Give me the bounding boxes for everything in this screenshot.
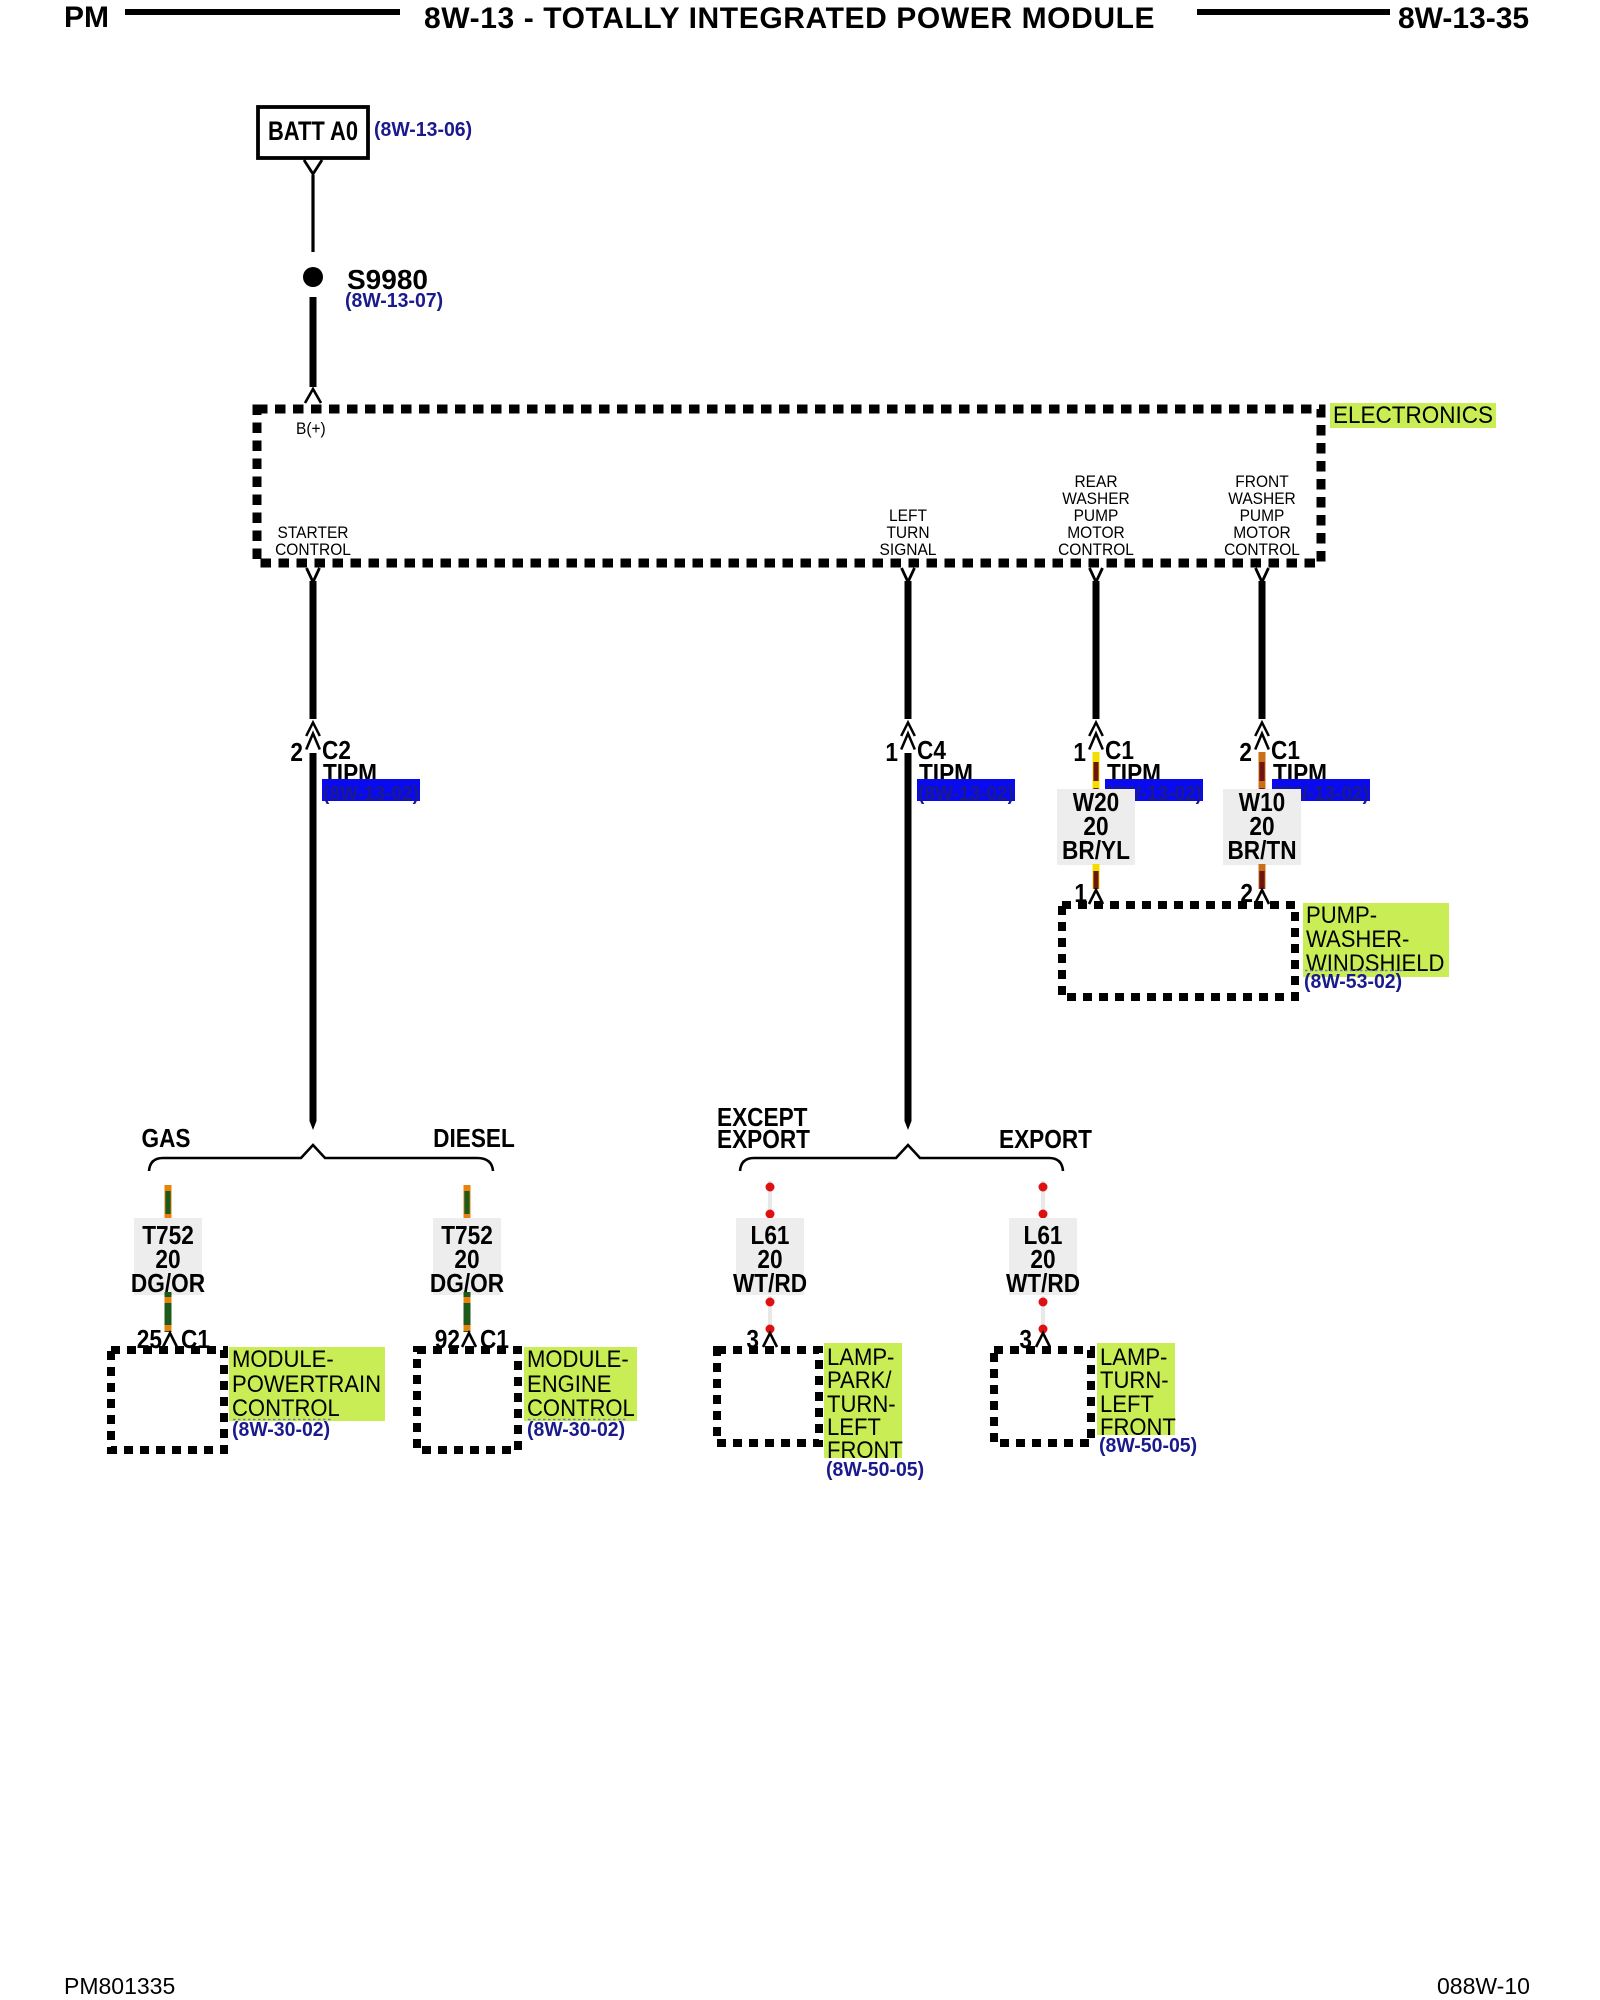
wire label T752 20 DG/OR (gas): [134, 1218, 202, 1295]
reference (8W-13-02) highlighted blue: [322, 779, 420, 801]
wire label L61 20 WT/RD (export): [1009, 1218, 1077, 1295]
wire T752 diesel segment upper (DG/OR): [464, 1185, 471, 1218]
underline artifact: [528, 1419, 626, 1421]
svg-text:PUMP: PUMP: [1240, 507, 1285, 525]
svg-text:(8W-50-05): (8W-50-05): [826, 1458, 924, 1481]
label LAMP-TURN-LEFT FRONT: [1097, 1343, 1175, 1435]
svg-text:1: 1: [885, 737, 898, 767]
svg-text:(8W-53-02): (8W-53-02): [1304, 970, 1402, 993]
svg-text:2: 2: [1239, 737, 1252, 767]
svg-text:EXPORT: EXPORT: [717, 1124, 810, 1154]
svg-text:BR/TN: BR/TN: [1227, 835, 1296, 865]
connector 1 C1 TIPM: [1089, 723, 1103, 737]
underline artifact: [1305, 970, 1403, 972]
module LAMP-PARK/TURN-LEFT FRONT dashed box: [717, 1350, 819, 1443]
svg-text:MOTOR: MOTOR: [1233, 524, 1291, 542]
svg-text:8W-13 - TOTALLY INTEGRATED POW: 8W-13 - TOTALLY INTEGRATED POWER MODULE: [424, 2, 1155, 35]
battery feed box BATT A0: [258, 107, 368, 158]
wire label L61 20 WT/RD (except export): [736, 1218, 804, 1295]
svg-text:BR/YL: BR/YL: [1062, 835, 1130, 865]
svg-text:PUMP: PUMP: [1074, 507, 1119, 525]
wire T752 gas segment lower: [165, 1292, 172, 1332]
reference (8W-13-02) highlighted blue: [917, 779, 1015, 801]
underline artifact: [233, 1419, 331, 1421]
wire T752 gas segment upper (DG/OR): [165, 1185, 172, 1218]
wire W10 segment lower: [1259, 864, 1266, 889]
svg-text:CONTROL: CONTROL: [1224, 541, 1300, 559]
wire W10 segment upper (BR/TN): [1259, 752, 1266, 790]
wire starter control lower run: [310, 753, 317, 1121]
branch brace EXCEPT EXPORT/EXPORT: [740, 1145, 1063, 1171]
svg-text:WT/RD: WT/RD: [1006, 1268, 1080, 1298]
svg-text:CONTROL: CONTROL: [275, 541, 351, 559]
pin chevron at B(+): [305, 389, 321, 403]
svg-text:(8W-30-02): (8W-30-02): [232, 1418, 330, 1441]
label MODULE-ENGINE CONTROL: [524, 1347, 637, 1421]
svg-text:TURN-: TURN-: [1100, 1367, 1169, 1394]
svg-text:1: 1: [1073, 737, 1086, 767]
svg-text:TURN: TURN: [886, 524, 929, 542]
svg-text:(8W-13-06): (8W-13-06): [374, 118, 472, 141]
wire L61 export (WT/RD dotted): [1041, 1181, 1045, 1221]
branch brace GAS/DIESEL: [149, 1145, 493, 1171]
svg-text:2: 2: [290, 737, 303, 767]
svg-text:WASHER-: WASHER-: [1306, 926, 1409, 953]
splice S9980: [303, 267, 323, 287]
wire from BATT A0 to splice: [311, 175, 314, 252]
connector 1 C4 TIPM: [901, 723, 915, 737]
svg-text:(8W-50-05): (8W-50-05): [1099, 1434, 1197, 1457]
wire splice to TIPM B(+): [310, 297, 317, 387]
wire L61 dots lower: [768, 1296, 772, 1332]
wire T752 diesel segment lower: [464, 1292, 471, 1332]
module ENGINE CONTROL dashed box: [417, 1350, 518, 1450]
svg-text:WASHER: WASHER: [1228, 490, 1296, 508]
svg-text:PM: PM: [64, 1, 109, 34]
svg-text:(8W-13-07): (8W-13-07): [345, 289, 443, 312]
svg-text:B(+): B(+): [296, 420, 326, 438]
wire label W10 20 BR/TN: [1223, 789, 1301, 865]
wire FRONT WASHER PUMP MOTOR CONTROL: [1259, 581, 1266, 719]
svg-text:WASHER: WASHER: [1062, 490, 1130, 508]
svg-text:088W-10: 088W-10: [1437, 1973, 1530, 1999]
svg-text:BATT A0: BATT A0: [268, 116, 358, 146]
svg-text:MODULE-: MODULE-: [232, 1346, 334, 1373]
module LAMP-TURN-LEFT FRONT dashed box: [994, 1350, 1091, 1443]
header rule right: [1197, 9, 1390, 15]
module POWERTRAIN CONTROL dashed box: [111, 1350, 224, 1450]
wire STARTER CONTROL: [310, 581, 317, 719]
svg-text:FRONT: FRONT: [1235, 473, 1288, 491]
wire LEFT TURN SIGNAL: [905, 581, 912, 719]
svg-text:STARTER: STARTER: [278, 524, 349, 542]
reference (8W-13-02) highlighted blue: [1272, 779, 1370, 801]
svg-text:DIESEL: DIESEL: [433, 1123, 515, 1153]
svg-text:(8W-30-02): (8W-30-02): [527, 1418, 625, 1441]
wire W20 segment lower: [1093, 864, 1100, 889]
connector Y below battery box: [304, 160, 322, 174]
svg-text:(8W-13-02): (8W-13-02): [323, 782, 419, 805]
svg-text:WT/RD: WT/RD: [733, 1268, 807, 1298]
wire label T752 20 DG/OR (diesel): [433, 1218, 501, 1295]
reference (8W-13-02) highlighted blue: [1105, 779, 1203, 801]
svg-text:ELECTRONICS: ELECTRONICS: [1333, 402, 1493, 429]
wire L61 except-export (WT/RD dotted): [768, 1181, 772, 1221]
wire REAR WASHER PUMP MOTOR CONTROL: [1093, 581, 1100, 719]
svg-text:GAS: GAS: [142, 1123, 191, 1153]
connector 2 C2 TIPM: [306, 723, 320, 737]
connector 2 C1 TIPM: [1255, 723, 1269, 737]
svg-text:POWERTRAIN: POWERTRAIN: [232, 1371, 381, 1398]
module PUMP-WASHER-WINDSHIELD dashed box: [1062, 905, 1295, 997]
svg-text:8W-13-35: 8W-13-35: [1398, 2, 1529, 35]
wire left turn signal lower run: [905, 753, 912, 1121]
connector Y at FRONT WASHER output: [1256, 568, 1269, 582]
svg-text:SIGNAL: SIGNAL: [880, 541, 937, 559]
module TIPM ELECTRONICS dashed box: [257, 409, 1321, 563]
svg-text:PUMP-: PUMP-: [1306, 902, 1377, 929]
svg-text:EXPORT: EXPORT: [999, 1124, 1092, 1154]
wire W20 segment upper (BR/YL): [1093, 752, 1100, 790]
label PUMP-WASHER-WINDSHIELD: [1303, 903, 1449, 977]
connector Y at LEFT TURN SIGNAL output: [902, 568, 915, 582]
svg-text:CONTROL: CONTROL: [1058, 541, 1134, 559]
connector Y at REAR WASHER output: [1090, 568, 1103, 582]
label LAMP-PARK/TURN-LEFT FRONT: [824, 1343, 902, 1458]
wire L61 dots lower (export): [1041, 1296, 1045, 1332]
label ELECTRONICS: [1330, 403, 1496, 428]
svg-text:PM801335: PM801335: [64, 1973, 175, 1999]
svg-text:(8W-13-02): (8W-13-02): [918, 782, 1014, 805]
wire label W20 20 BR/YL: [1057, 789, 1135, 865]
label MODULE-POWERTRAIN CONTROL: [229, 1347, 385, 1421]
svg-text:MOTOR: MOTOR: [1067, 524, 1125, 542]
header rule left: [125, 9, 400, 15]
svg-text:LEFT: LEFT: [889, 507, 927, 525]
connector Y at STARTER CONTROL output: [307, 568, 320, 582]
svg-text:MODULE-: MODULE-: [527, 1346, 629, 1373]
svg-text:REAR: REAR: [1074, 473, 1117, 491]
svg-text:PARK/: PARK/: [827, 1367, 892, 1394]
svg-text:ENGINE: ENGINE: [527, 1371, 612, 1398]
